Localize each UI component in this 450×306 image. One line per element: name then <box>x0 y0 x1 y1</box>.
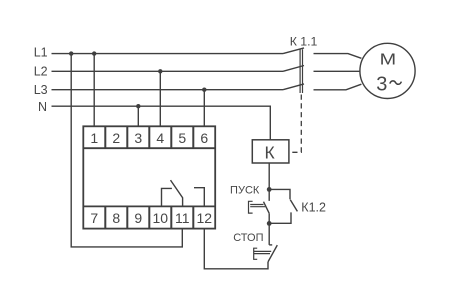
wire L1 loop to terminal 11 <box>71 54 182 247</box>
svg-text:К: К <box>264 143 275 163</box>
svg-text:4: 4 <box>156 130 164 146</box>
relay device body <box>83 126 215 228</box>
svg-text:9: 9 <box>134 210 142 226</box>
wire K1.1 to motor phase L1 <box>314 54 362 59</box>
svg-text:M: M <box>380 52 397 69</box>
terminal numbers 7-12 <box>90 210 212 226</box>
coil K box <box>252 140 289 163</box>
relay internal contact fixed terminal 10 <box>162 188 172 206</box>
svg-text:12: 12 <box>197 210 213 226</box>
svg-text:N: N <box>38 100 47 114</box>
top terminal strip bottom line <box>83 147 215 149</box>
relay internal contact blade terminal 11 <box>171 180 183 206</box>
motor tilde symbol <box>390 81 402 84</box>
svg-text:L1: L1 <box>34 46 48 60</box>
contact K1.1 blade phase L2 <box>283 66 304 72</box>
wire coil K to start button <box>268 163 270 201</box>
bottom terminal dividers <box>105 206 193 228</box>
wire N drop to terminal 3 <box>137 106 139 126</box>
junction dot start top <box>267 187 272 192</box>
wire start button to stop button <box>268 213 270 245</box>
svg-text:7: 7 <box>90 210 98 226</box>
top terminal dividers <box>105 126 193 148</box>
button PUSK blade <box>264 202 270 214</box>
junction dot start bottom <box>267 221 272 226</box>
wire N <box>52 106 271 140</box>
svg-text:К 1.1: К 1.1 <box>290 34 318 48</box>
svg-text:6: 6 <box>200 130 208 146</box>
contact K1.1 blade phase L1 <box>283 48 304 54</box>
contact K1.1 blade phase L3 <box>283 84 304 90</box>
svg-text:8: 8 <box>112 210 120 226</box>
junction dot N terminal 3 <box>136 104 140 108</box>
junction dot L3 terminal 6 <box>202 88 206 92</box>
button STOP blade <box>268 245 277 262</box>
wire L3 <box>52 89 284 91</box>
svg-text:L2: L2 <box>34 64 48 78</box>
button PUSK plunger <box>249 201 266 213</box>
svg-text:3: 3 <box>134 130 142 146</box>
dashed mechanical link K1.1 to coil K <box>292 93 301 152</box>
wire K1.1 to motor phase L2 <box>314 70 360 72</box>
svg-text:3: 3 <box>376 73 387 95</box>
wire K1.1 to motor phase L3 <box>314 84 362 90</box>
wire L2 <box>52 70 284 72</box>
junction dot L1 terminal 1 <box>92 51 96 55</box>
svg-text:L3: L3 <box>34 83 48 97</box>
terminal numbers 1-6 <box>90 130 208 146</box>
wire L1 <box>52 53 284 55</box>
contact K1.1 linkage bars <box>300 49 302 93</box>
stop contact seat <box>269 244 272 246</box>
contact K1.2 lower branch <box>269 212 291 223</box>
junction dot L2 terminal 4 <box>158 69 162 73</box>
wire L2 drop to terminal 4 <box>159 71 161 126</box>
wire terminal 12 to stop button <box>204 229 268 269</box>
contact K1.2 upper branch <box>269 189 290 199</box>
svg-text:11: 11 <box>175 210 190 226</box>
contact K1.2 blade <box>290 200 297 212</box>
relay internal contact fixed terminal 12 <box>194 188 204 207</box>
bottom terminal strip top line <box>83 205 215 207</box>
button STOP plunger <box>254 248 272 259</box>
svg-text:10: 10 <box>153 210 169 226</box>
svg-text:5: 5 <box>178 130 186 146</box>
wire L3 drop to terminal 6 <box>203 90 205 127</box>
junction dot L1 loop <box>69 51 73 55</box>
wire L1 drop to terminal 1 <box>93 54 95 127</box>
motor M circle <box>360 43 415 98</box>
svg-text:СТОП: СТОП <box>233 232 263 244</box>
svg-text:2: 2 <box>112 130 120 146</box>
svg-text:ПУСК: ПУСК <box>230 185 260 197</box>
svg-text:К1.2: К1.2 <box>301 200 326 214</box>
svg-text:1: 1 <box>90 130 98 146</box>
